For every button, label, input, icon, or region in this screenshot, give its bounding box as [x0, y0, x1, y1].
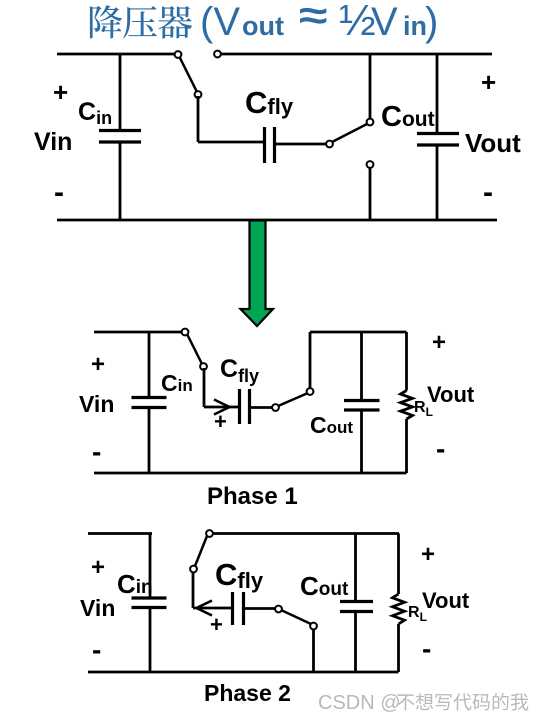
- svg-text:Vout: Vout: [427, 382, 475, 407]
- node: top rail right terminal: [214, 51, 221, 58]
- node: lower contact below S2: [367, 161, 374, 168]
- svg-text:Phase 2: Phase 2: [204, 680, 291, 706]
- phase1 switch S2 closed to Cout: [272, 388, 313, 411]
- capacitor Cin branch wire bottom: [119, 143, 122, 220]
- capacitor Cin: [99, 131, 141, 143]
- capacitor Cout branch wire top: [436, 54, 439, 133]
- capacitor Cfly: [265, 127, 275, 163]
- svg-text:Cfly: Cfly: [220, 355, 259, 386]
- svg-text:Vout: Vout: [465, 128, 521, 158]
- svg-text:+: +: [481, 67, 496, 97]
- svg-text:(V: (V: [200, 0, 240, 44]
- switch S2 (output switch): [326, 119, 373, 148]
- top rail right segment: [221, 53, 492, 56]
- svg-text:Vin: Vin: [34, 128, 72, 156]
- watermark handle 不想写代码的我: [397, 693, 528, 711]
- phase1 capacitor Cout branch: [360, 332, 363, 473]
- svg-text:-: -: [422, 633, 431, 664]
- phase2 top rail right segment: [213, 532, 399, 535]
- wire: S2 up to top rail: [369, 54, 372, 119]
- phase1 top rail right segment: [310, 331, 407, 334]
- phase1 capacitor Cfly: [240, 389, 250, 424]
- wire: switch pole down to Cfly left: [198, 96, 263, 142]
- phase2 bottom rail: [88, 671, 399, 674]
- svg-text:+: +: [53, 77, 68, 107]
- svg-text:Cout: Cout: [381, 101, 435, 133]
- svg-text:Vin: Vin: [80, 595, 115, 621]
- phase2 wire: S2 contact down to bottom rail: [312, 629, 315, 672]
- phase1 bottom rail: [94, 472, 407, 475]
- capacitor Cout: [417, 134, 459, 146]
- svg-text:-: -: [92, 436, 101, 467]
- phase1 wire: S2 up to rail: [309, 332, 312, 389]
- svg-text:V: V: [371, 0, 398, 44]
- phase1 current arrow (right): [214, 400, 230, 415]
- green down arrow: [241, 221, 274, 327]
- svg-text:Vout: Vout: [422, 588, 470, 613]
- svg-text:-: -: [483, 176, 493, 209]
- phase2 current arrow (left): [197, 601, 213, 616]
- svg-text:+: +: [91, 554, 105, 581]
- svg-text:-: -: [92, 634, 101, 665]
- svg-text:+: +: [421, 541, 435, 568]
- title: 降压器 (buck converter): [90, 5, 192, 39]
- svg-text:Cin: Cin: [161, 370, 193, 396]
- phase1 switch S1 closed to Cfly: [182, 329, 207, 370]
- top rail left segment: [57, 53, 175, 56]
- svg-text:+: +: [214, 409, 227, 434]
- phase1 wire: Cfly right to switch S2: [251, 406, 272, 409]
- svg-text:Cin: Cin: [78, 98, 112, 128]
- wire: lower contact to bottom rail: [369, 168, 372, 220]
- svg-text:+: +: [91, 351, 105, 378]
- wire: Cfly right to switch S2: [276, 143, 326, 146]
- phase1 capacitor Cin: [132, 398, 167, 408]
- svg-text:-: -: [54, 176, 64, 209]
- svg-text:+: +: [210, 612, 223, 637]
- svg-text:+: +: [432, 329, 446, 356]
- phase2 resistor RL: [393, 534, 405, 673]
- phase2 capacitor Cfly: [233, 592, 244, 625]
- phase2 top rail left segment: [88, 532, 152, 535]
- svg-text:-: -: [436, 433, 445, 464]
- svg-text:Phase 1: Phase 1: [207, 483, 298, 510]
- phase1 capacitor Cin branch: [148, 332, 151, 473]
- phase1 top rail left segment: [94, 331, 182, 334]
- svg-text:Cout: Cout: [300, 571, 349, 601]
- svg-text:Cout: Cout: [310, 412, 353, 438]
- phase2 switch S2 open (to ground): [275, 606, 317, 630]
- svg-text:out: out: [242, 11, 284, 41]
- phase1 capacitor Cout: [344, 401, 380, 411]
- phase1 resistor RL: [401, 332, 413, 473]
- title formula (Vout ≈ ½Vin): [200, 0, 438, 45]
- svg-text:): ): [425, 0, 438, 44]
- phase2 switch S1 open (to Cfly): [190, 530, 213, 572]
- phase2 capacitor Cout branch: [354, 534, 357, 673]
- bottom rail: [57, 219, 497, 222]
- capacitor Cout branch wire bottom: [436, 146, 439, 220]
- svg-text:Cin: Cin: [117, 569, 153, 599]
- phase2 capacitor Cout: [340, 602, 373, 612]
- svg-text:in: in: [403, 11, 427, 41]
- phase2 wire: switch pole down to Cfly left: [193, 572, 231, 608]
- svg-text:Vin: Vin: [79, 391, 114, 417]
- phase2 wire: Cfly right to switch S2: [245, 607, 275, 610]
- capacitor Cin branch wire top: [119, 54, 122, 130]
- switch S1 (input switch): [175, 51, 202, 98]
- svg-text:Cfly: Cfly: [215, 557, 264, 593]
- svg-text:Cfly: Cfly: [245, 85, 294, 120]
- svg-text:CSDN @: CSDN @: [318, 692, 401, 714]
- phase2 capacitor Cin: [132, 598, 167, 608]
- svg-text:≈: ≈: [299, 0, 328, 38]
- phase2 capacitor Cin branch: [149, 534, 152, 673]
- phase1 wire: switch down to Cfly left: [204, 368, 238, 407]
